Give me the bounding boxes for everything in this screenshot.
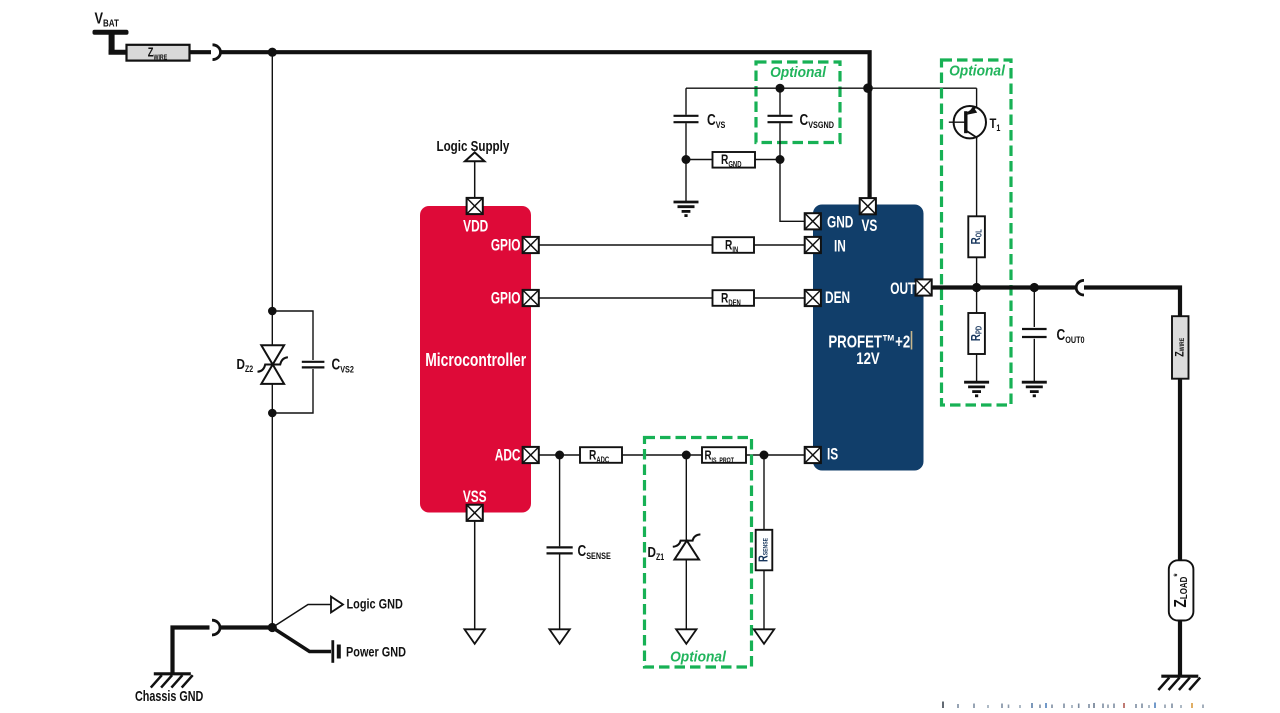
- terminal RSENSE arrow down: [754, 629, 774, 644]
- label Logic Supply: [437, 138, 510, 155]
- ground IEC symbol (RGND): [674, 202, 699, 216]
- node junction CSENSE: [555, 451, 564, 460]
- label OUT pin: [890, 280, 915, 298]
- wire RSENSE to terminal: [763, 570, 765, 629]
- wire CVS branch: [685, 88, 687, 115]
- resistor RIS_PROT: [702, 447, 746, 464]
- wire GPIO2 to RDEN: [539, 297, 712, 299]
- wire CSENSE to terminal: [559, 554, 561, 629]
- wire COUT0 branch: [1033, 288, 1035, 328]
- label GPIO2: [491, 290, 521, 308]
- pin VS: [860, 198, 876, 214]
- wire left protection branch vertical: [271, 52, 273, 627]
- wire CVS to RGND node: [685, 123, 687, 159]
- wire CVS2 parallel branch: [272, 311, 313, 413]
- optional box (DZ1): [645, 438, 752, 668]
- PROFET U1 block: [813, 205, 924, 471]
- svg-text:IS: IS: [827, 446, 839, 464]
- label DZ1: [648, 544, 665, 563]
- label DEN pin: [825, 289, 850, 307]
- node junction RGND left: [682, 155, 691, 164]
- node junction DZ2 bottom: [268, 409, 277, 418]
- label VS pin: [862, 217, 878, 235]
- svg-text:GPIO: GPIO: [491, 237, 521, 255]
- wire RGND to CVSGND node: [755, 159, 780, 161]
- ground IEC symbol (COUT0): [1022, 382, 1047, 396]
- text fragment bottom right (cut off): [943, 702, 1203, 709]
- svg-text:OUT: OUT: [890, 280, 915, 298]
- connector break symbol (supply line): [213, 45, 221, 60]
- svg-text:Optional: Optional: [670, 648, 727, 664]
- node junction ground star point: [268, 623, 277, 632]
- wire OUT rail right thick: [1084, 288, 1180, 317]
- label COUT0: [1057, 326, 1085, 346]
- wire ADC to RADC: [539, 454, 580, 456]
- wire ZWIRE to connector: [190, 50, 212, 54]
- label DZ2: [237, 356, 254, 375]
- diode DZ1 zener: [673, 534, 701, 559]
- label PROFET +2 12V: [828, 333, 910, 369]
- node junction COUT0: [1030, 283, 1039, 292]
- capacitor CVS2: [302, 362, 325, 368]
- capacitor COUT0: [1022, 329, 1047, 337]
- node junction VBAT rail / protection branch: [268, 48, 277, 57]
- wire node to RGND: [686, 159, 713, 161]
- node VBAT label: [95, 10, 120, 28]
- svg-text:Microcontroller: Microcontroller: [425, 350, 526, 370]
- label CVS2: [332, 355, 355, 375]
- ground chassis symbol (load): [1158, 676, 1200, 690]
- transistor T1: [949, 106, 986, 138]
- node junction RSENSE: [760, 451, 769, 460]
- wire RIN to IN: [754, 244, 804, 246]
- microcontroller U2 block: [420, 206, 531, 513]
- label Optional (right): [949, 62, 1006, 78]
- wire RISPROT to IS: [746, 454, 804, 456]
- wire VS decoupling rail: [686, 87, 977, 89]
- svg-text:Chassis GND: Chassis GND: [135, 687, 203, 704]
- pin VSS: [467, 505, 483, 521]
- wire Power GND branch thick: [272, 628, 331, 652]
- pin VDD: [467, 198, 483, 214]
- capacitor CVS: [674, 116, 699, 122]
- wire Logic Supply to VDD: [474, 161, 476, 198]
- wire RDEN to DEN: [754, 297, 804, 299]
- wire ZWIRE to ZLOAD thick: [1178, 379, 1182, 562]
- terminal Logic Supply arrow: [465, 152, 484, 161]
- resistor RADC: [580, 447, 622, 465]
- svg-text:DEN: DEN: [825, 289, 850, 307]
- optional box (T1 ROL RPD): [942, 60, 1012, 405]
- label Logic GND: [347, 596, 403, 612]
- node junction CVSGND top: [776, 84, 785, 93]
- diode DZ2 bidirectional TVS: [258, 345, 288, 384]
- wire RSENSE branch: [763, 455, 765, 530]
- svg-text:ADC: ADC: [495, 447, 521, 465]
- label GPIO1: [491, 237, 521, 255]
- label CSENSE: [578, 542, 612, 562]
- wire CSENSE branch: [559, 455, 561, 546]
- connector break symbol (OUT line): [1076, 280, 1084, 295]
- text caret artifact: [911, 331, 913, 350]
- wire RPD to ground: [976, 354, 978, 382]
- svg-text:Power GND: Power GND: [346, 644, 406, 660]
- wire Logic GND branch: [272, 605, 330, 628]
- svg-text:VS: VS: [862, 217, 878, 235]
- battery VBAT supply symbol: [93, 30, 129, 55]
- capacitor CVSGND: [768, 116, 793, 122]
- wire OUT rail to RPD: [976, 288, 978, 314]
- ground chassis GND symbol: [151, 674, 193, 688]
- label T1: [990, 116, 1001, 133]
- wire main VBAT rail to VS: [220, 52, 870, 198]
- pin GND (PROFET): [805, 213, 821, 229]
- label Optional (DZ1): [670, 648, 727, 664]
- terminal Logic GND arrow: [331, 597, 343, 613]
- svg-text:GND: GND: [827, 214, 853, 232]
- svg-text:12V: 12V: [856, 350, 880, 369]
- wire DZ1 to terminal: [685, 559, 687, 629]
- wire RADC to RISPROT: [622, 454, 702, 456]
- wire ROL to OUT rail: [976, 257, 978, 287]
- resistor RGND: [713, 152, 756, 170]
- wire DZ1 branch: [685, 455, 687, 541]
- terminal CSENSE arrow down: [549, 629, 569, 644]
- wire ZLOAD to chassis ground thick: [1178, 621, 1182, 677]
- wire VSS down: [474, 521, 476, 629]
- pin IN: [805, 237, 821, 253]
- label Optional (CVSGND): [770, 64, 827, 80]
- svg-text:Optional: Optional: [949, 62, 1006, 78]
- pin GPIO1: [523, 237, 539, 253]
- svg-text:IN: IN: [834, 238, 846, 256]
- connector break symbol (ground line): [212, 620, 220, 635]
- svg-text:GPIO: GPIO: [491, 290, 521, 308]
- svg-text:Optional: Optional: [770, 64, 827, 80]
- resistor RPD: [968, 313, 985, 354]
- node junction RGND right: [776, 155, 785, 164]
- wire COUT0 to ground: [1033, 339, 1035, 382]
- svg-text:VSS: VSS: [463, 488, 487, 506]
- resistor ZWIRE (load side): [1172, 316, 1189, 379]
- label IS pin: [827, 446, 839, 464]
- wire CVSGND branch: [779, 88, 781, 115]
- optional box (CVSGND): [756, 62, 840, 143]
- wire ground stub below CVS: [685, 160, 687, 202]
- label VSS: [463, 488, 487, 506]
- svg-text:Logic GND: Logic GND: [347, 596, 403, 612]
- label IN pin: [834, 238, 846, 256]
- terminal VSS arrow down: [465, 629, 485, 644]
- wire chassis ground thick: [173, 628, 210, 675]
- pin GPIO2: [523, 290, 539, 306]
- node junction ROL/RPD on OUT rail: [972, 283, 981, 292]
- resistor RIN: [713, 237, 755, 255]
- wire OUT rail thick: [932, 285, 1076, 289]
- resistor ZWIRE (battery side): [127, 45, 190, 62]
- resistor RSENSE: [756, 530, 773, 571]
- wire rail to T1 emitter: [976, 88, 978, 107]
- terminal DZ1 arrow down: [676, 629, 696, 644]
- wire T1 collector to ROL: [976, 138, 978, 217]
- node junction DZ2 top: [268, 307, 277, 316]
- capacitor CSENSE: [547, 547, 573, 553]
- wire to GND pin: [780, 160, 804, 222]
- pin OUT: [916, 279, 932, 295]
- label Microcontroller: [425, 350, 526, 370]
- label Chassis GND: [135, 687, 203, 704]
- label GND pin: [827, 214, 853, 232]
- pin ADC: [523, 447, 539, 463]
- resistor ROL: [968, 216, 985, 257]
- node junction VS rail: [863, 83, 873, 93]
- pin IS: [805, 447, 821, 463]
- pin DEN: [805, 290, 821, 306]
- node junction DZ1: [682, 451, 691, 460]
- label CVSGND: [800, 111, 834, 131]
- resistor RDEN: [713, 290, 755, 308]
- load ZLOAD*: [1169, 560, 1194, 620]
- label Power GND: [346, 644, 406, 660]
- wire CVSGND to RGND node: [779, 123, 781, 159]
- label ADC: [495, 447, 521, 465]
- svg-text:Logic Supply: Logic Supply: [437, 138, 510, 155]
- label CVS: [707, 111, 726, 131]
- ground IEC symbol (RPD): [964, 382, 989, 396]
- svg-text:VDD: VDD: [463, 218, 488, 236]
- ground Power GND symbol: [333, 640, 339, 663]
- label VDD: [463, 218, 488, 236]
- wire GPIO1 to RIN: [539, 244, 712, 246]
- wire connector to star point: [220, 625, 273, 629]
